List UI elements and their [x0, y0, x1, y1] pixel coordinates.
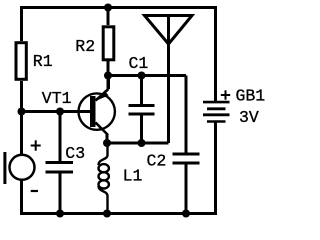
wire C2 vertical upper: [185, 76, 188, 155]
node dot collector: [103, 139, 111, 147]
wire left rail top (to R1): [20, 6, 23, 41]
wire base rail (left rail to transistor base): [22, 110, 91, 113]
wire C1 vertical lower: [140, 114, 143, 143]
node dot top (R2/top rail): [104, 4, 112, 12]
resistor R2: [103, 27, 114, 60]
inductor L1: [99, 143, 109, 214]
capacitor C2: [173, 153, 200, 156]
node dot base/left rail: [18, 108, 26, 116]
node dot C2 bottom: [182, 210, 190, 218]
svg-text:C1: C1: [129, 54, 149, 73]
node dot C1 bottom: [138, 139, 146, 147]
antenna W1 triangle: [145, 16, 193, 45]
node dot L1 bottom: [103, 210, 111, 218]
svg-text:L1: L1: [123, 166, 143, 185]
node dot C3 top: [56, 108, 64, 116]
resistor R1: [16, 43, 26, 80]
wire collector to antenna (horizontal y=143): [107, 142, 169, 145]
wire right rail upper (to battery): [214, 6, 217, 102]
node dot C1 top: [138, 72, 146, 80]
svg-text:R1: R1: [33, 52, 53, 71]
wire bottom rail: [20, 212, 217, 215]
svg-text:C2: C2: [147, 152, 167, 171]
wire R2 bottom lead / emitter lead: [107, 60, 110, 89]
node dot C3 bottom: [56, 210, 64, 218]
microphone plus sign: [31, 140, 41, 150]
wire top rail: [20, 6, 217, 9]
battery GB1: [203, 102, 230, 121]
capacitor C1: [129, 104, 155, 107]
wire left rail mid (R1 to microphone): [20, 81, 23, 156]
wire right rail lower (battery to bottom): [214, 122, 217, 215]
node dot emitter/R2/C1 rail: [104, 72, 112, 80]
svg-text:VT1: VT1: [42, 89, 72, 108]
microphone BM1: [3, 152, 34, 184]
wire emitter node to C2 (horizontal y=75.5): [108, 74, 186, 77]
svg-text:R2: R2: [75, 37, 95, 56]
wire antenna feed vertical: [167, 16, 170, 144]
wire C3 vertical upper: [59, 112, 62, 163]
wire left rail bottom (microphone to bottom rail): [20, 180, 23, 216]
svg-text:C3: C3: [65, 144, 85, 163]
battery plus sign: [221, 90, 230, 99]
microphone minus sign: [31, 190, 38, 192]
wire C1 vertical upper: [140, 76, 143, 106]
transistor VT1: [79, 76, 115, 144]
svg-text:GB1: GB1: [236, 87, 266, 106]
wire C2 vertical lower: [185, 163, 188, 214]
wire R2 top lead: [107, 8, 110, 26]
svg-text:3V: 3V: [239, 108, 259, 127]
capacitor C3: [46, 161, 74, 164]
wire C3 vertical lower: [59, 172, 62, 214]
